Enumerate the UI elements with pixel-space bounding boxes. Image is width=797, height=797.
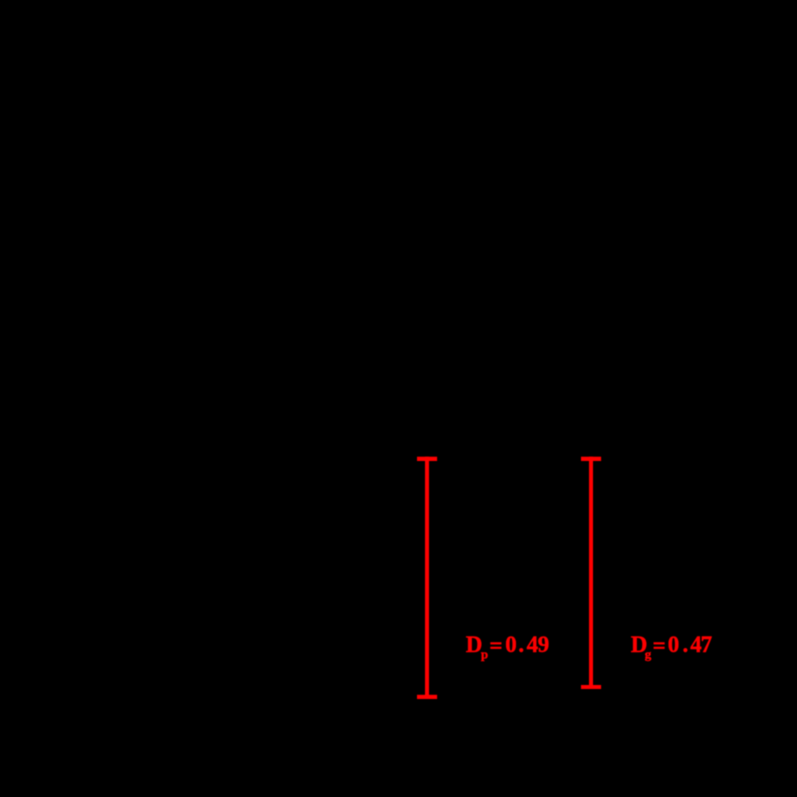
errorbar left bottom cap bbox=[417, 695, 437, 699]
errorbar right stem bbox=[589, 457, 593, 689]
errorbar right top cap bbox=[581, 457, 601, 461]
errorbar left top cap bbox=[417, 457, 437, 461]
errorbar right bottom cap bbox=[581, 685, 601, 689]
errorbar left stem bbox=[425, 457, 429, 699]
